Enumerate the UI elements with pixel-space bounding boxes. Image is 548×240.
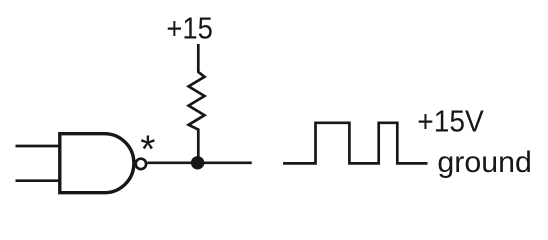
svg-text:+15V: +15V bbox=[417, 103, 484, 138]
svg-text:ground: ground bbox=[437, 146, 532, 179]
svg-text:+15: +15 bbox=[166, 11, 213, 46]
svg-text:*: * bbox=[140, 128, 155, 171]
